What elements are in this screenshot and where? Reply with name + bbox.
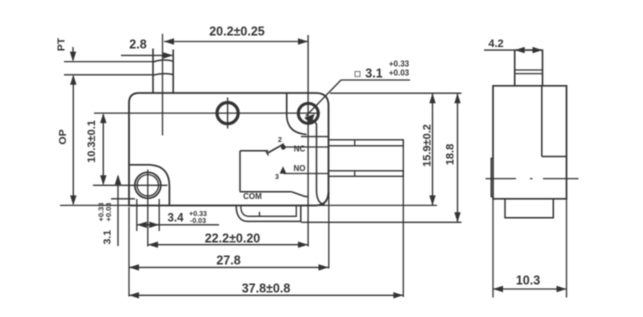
svg-text:+0.03: +0.03: [389, 69, 410, 78]
plunger (front view) right edge: [172, 50, 174, 94]
4.2 dimension underline: [484, 49, 515, 51]
NC blade tick: [354, 140, 356, 146]
side view centerline dash-dot: [486, 178, 579, 180]
svg-text:3.1: 3.1: [102, 230, 114, 245]
side view plunger cross line 2: [515, 73, 543, 75]
interior cutout bottom edge: [240, 191, 292, 193]
arrowhead 10.3 up: [100, 113, 106, 123]
NO contact triangle: [280, 166, 287, 173]
NO terminal line: [284, 173, 329, 175]
arrowhead 15.9 down: [429, 195, 435, 205]
arrowhead 3.1 left up: [115, 175, 121, 185]
shelf under boss: [301, 136, 329, 138]
arc joining line A to line C at top: [308, 119, 316, 125]
svg-text:37.8±0.8: 37.8±0.8: [242, 282, 291, 296]
switch lever (common contact arm): [267, 144, 284, 154]
NC terminal line: [286, 146, 329, 148]
COM terminal outer bend: [236, 206, 301, 221]
svg-text:3: 3: [275, 174, 279, 181]
svg-text:27.8: 27.8: [216, 254, 240, 268]
NO terminal blade: [329, 171, 404, 177]
bottom-left hole vertical centerline: [147, 170, 149, 247]
svg-text:+0.33: +0.33: [389, 60, 410, 69]
svg-text:20.2±0.25: 20.2±0.25: [209, 25, 265, 39]
arrowhead 27.8 right: [319, 264, 329, 270]
plunger second arc (operating position): [153, 74, 173, 76]
top holes centerline / 10.3 extension: [94, 112, 320, 114]
bottom-left mounting boss outline: [129, 165, 169, 206]
37.8±0.8 dimension line: [129, 294, 403, 296]
top-right mounting hole: [298, 103, 318, 123]
hole bottom tangent extension (3.1 left dim): [111, 198, 135, 200]
svg-text:18.8: 18.8: [445, 144, 457, 165]
svg-text:3.1: 3.1: [365, 67, 382, 81]
svg-text:3.4: 3.4: [168, 213, 185, 225]
27.8 dimension line: [129, 266, 329, 268]
side view left bump: [491, 158, 493, 196]
3.4 left extension line: [136, 199, 138, 231]
4.2 dimension line between arrows: [515, 49, 543, 51]
dimension 20.2±0.25 line: [164, 41, 308, 43]
arrowhead 10.3 side right: [557, 286, 567, 292]
plunger top arc (free position): [153, 60, 173, 62]
arrowhead 27.8 left: [129, 264, 139, 270]
side view right edge extension down: [566, 200, 568, 298]
svg-text:15.9±0.2: 15.9±0.2: [422, 124, 434, 167]
arrowhead 20.2 right: [298, 38, 308, 44]
svg-text:2.8: 2.8: [129, 38, 146, 52]
interior cutout left edge: [239, 151, 241, 192]
arrowhead 10.3 down: [100, 175, 106, 185]
label 3.1 +0.33/+0.03 (rotated, left): [97, 203, 114, 245]
arrowhead 3.1 leader at hole: [304, 114, 315, 124]
top-right hole boss outline: [287, 93, 307, 135]
inner slot wall line C with J-curve: [317, 124, 325, 205]
side view left edge extension down: [492, 200, 494, 298]
arrowhead 20.2 left: [164, 38, 174, 44]
arrowhead 4.2 right: [533, 47, 543, 53]
side view bottom tab: [505, 199, 553, 218]
arrowhead OP down: [70, 195, 76, 205]
svg-text:PT: PT: [56, 37, 68, 51]
body top extension line to right dims: [330, 92, 462, 94]
svg-text:10.3±0.1: 10.3±0.1: [86, 120, 98, 163]
diameter mark: [355, 72, 360, 77]
arrowhead 3.4 right: [149, 222, 159, 228]
3.1 top-right leader underline: [341, 79, 410, 81]
side view body outline: [493, 86, 567, 199]
arrowhead 2.8 right tip: [163, 52, 173, 58]
svg-text:22.2±0.20: 22.2±0.20: [205, 232, 261, 246]
NC terminal blade: [329, 140, 404, 146]
side view plunger right edge: [542, 50, 544, 86]
dimension 2.8 leader: [121, 54, 172, 56]
plunger center extension line (20.2 left anchor): [162, 34, 164, 136]
body bottom extension line (left and right): [60, 204, 437, 206]
svg-text:COM: COM: [243, 192, 262, 201]
svg-text:2: 2: [278, 137, 282, 144]
bottom-left mounting hole inner circle: [137, 175, 158, 196]
inner slot wall line A (hole center extension): [307, 35, 309, 247]
NO blade tick: [354, 171, 356, 177]
lever pivot tick: [266, 151, 269, 156]
body right edge extension down: [328, 192, 330, 269]
interior cutout top edge: [240, 150, 268, 152]
10.3±0.1 dimension line: [102, 115, 104, 185]
arrowhead PT down: [70, 52, 76, 62]
plunger (front view) left edge: [152, 49, 154, 94]
bottom-left hole horizontal centerline / 10.3 extension: [93, 184, 168, 186]
arrowhead 15.9 up: [429, 93, 435, 103]
3.4 dimension line with underline to text: [137, 224, 219, 226]
side view plunger cross line 1: [515, 69, 543, 71]
COM terminal tick: [259, 212, 261, 217]
svg-text:NC: NC: [294, 145, 306, 154]
OP dimension line: [72, 76, 74, 204]
side view inner step horizontal: [542, 156, 567, 158]
arrowhead 3.4 left: [137, 222, 147, 228]
side view plunger top cap: [515, 49, 543, 51]
svg-text:+0.03: +0.03: [104, 203, 113, 222]
NC contact dot: [281, 145, 286, 150]
3.1 top-right leader diagonal: [306, 80, 341, 116]
arrowhead 37.8 right: [393, 292, 403, 298]
3.1 left dimension line: [117, 176, 119, 246]
PT extension line lower / OP top anchor: [64, 74, 153, 76]
arrowhead 22.2 left: [148, 242, 158, 248]
PT dimension line upper segment: [72, 47, 74, 60]
top-center mounting hole: [217, 103, 238, 124]
interior cutout diagonal to slot: [292, 192, 309, 197]
svg-text:OP: OP: [57, 129, 69, 144]
side view inner step vertical: [541, 86, 543, 157]
arrowhead 22.2 right: [298, 242, 308, 248]
3.4 right extension line: [158, 199, 160, 231]
arrowhead 37.8 left: [129, 292, 139, 298]
arrowhead OP up: [70, 75, 76, 85]
svg-text:10.3: 10.3: [516, 274, 540, 288]
svg-text:-0.03: -0.03: [190, 218, 206, 225]
blade tip extension down (37.8 right anchor): [402, 146, 404, 297]
svg-text:NO: NO: [294, 164, 306, 173]
15.9±0.2 dimension line: [432, 93, 434, 205]
side view plunger left edge: [514, 50, 516, 86]
top-center hole vertical centerline: [227, 98, 229, 129]
COM bottom extension line: [301, 221, 462, 223]
18.8 dimension line: [457, 93, 459, 222]
bottom-left mounting hole outer circle: [135, 172, 161, 198]
arrowhead 4.2 left: [515, 47, 525, 53]
switch body outline (front view): [129, 93, 329, 206]
PT extension line upper: [64, 61, 153, 63]
arrowhead 18.8 down: [454, 212, 460, 222]
svg-text:4.2: 4.2: [488, 38, 503, 50]
arrowhead 18.8 up: [454, 93, 460, 103]
arrowhead 10.3 side left: [493, 286, 503, 292]
10.3 side dimension line: [493, 288, 567, 290]
body left edge extension down: [128, 207, 130, 297]
22.2±0.20 dimension line: [148, 244, 308, 246]
COM terminal inner bend: [241, 206, 296, 216]
